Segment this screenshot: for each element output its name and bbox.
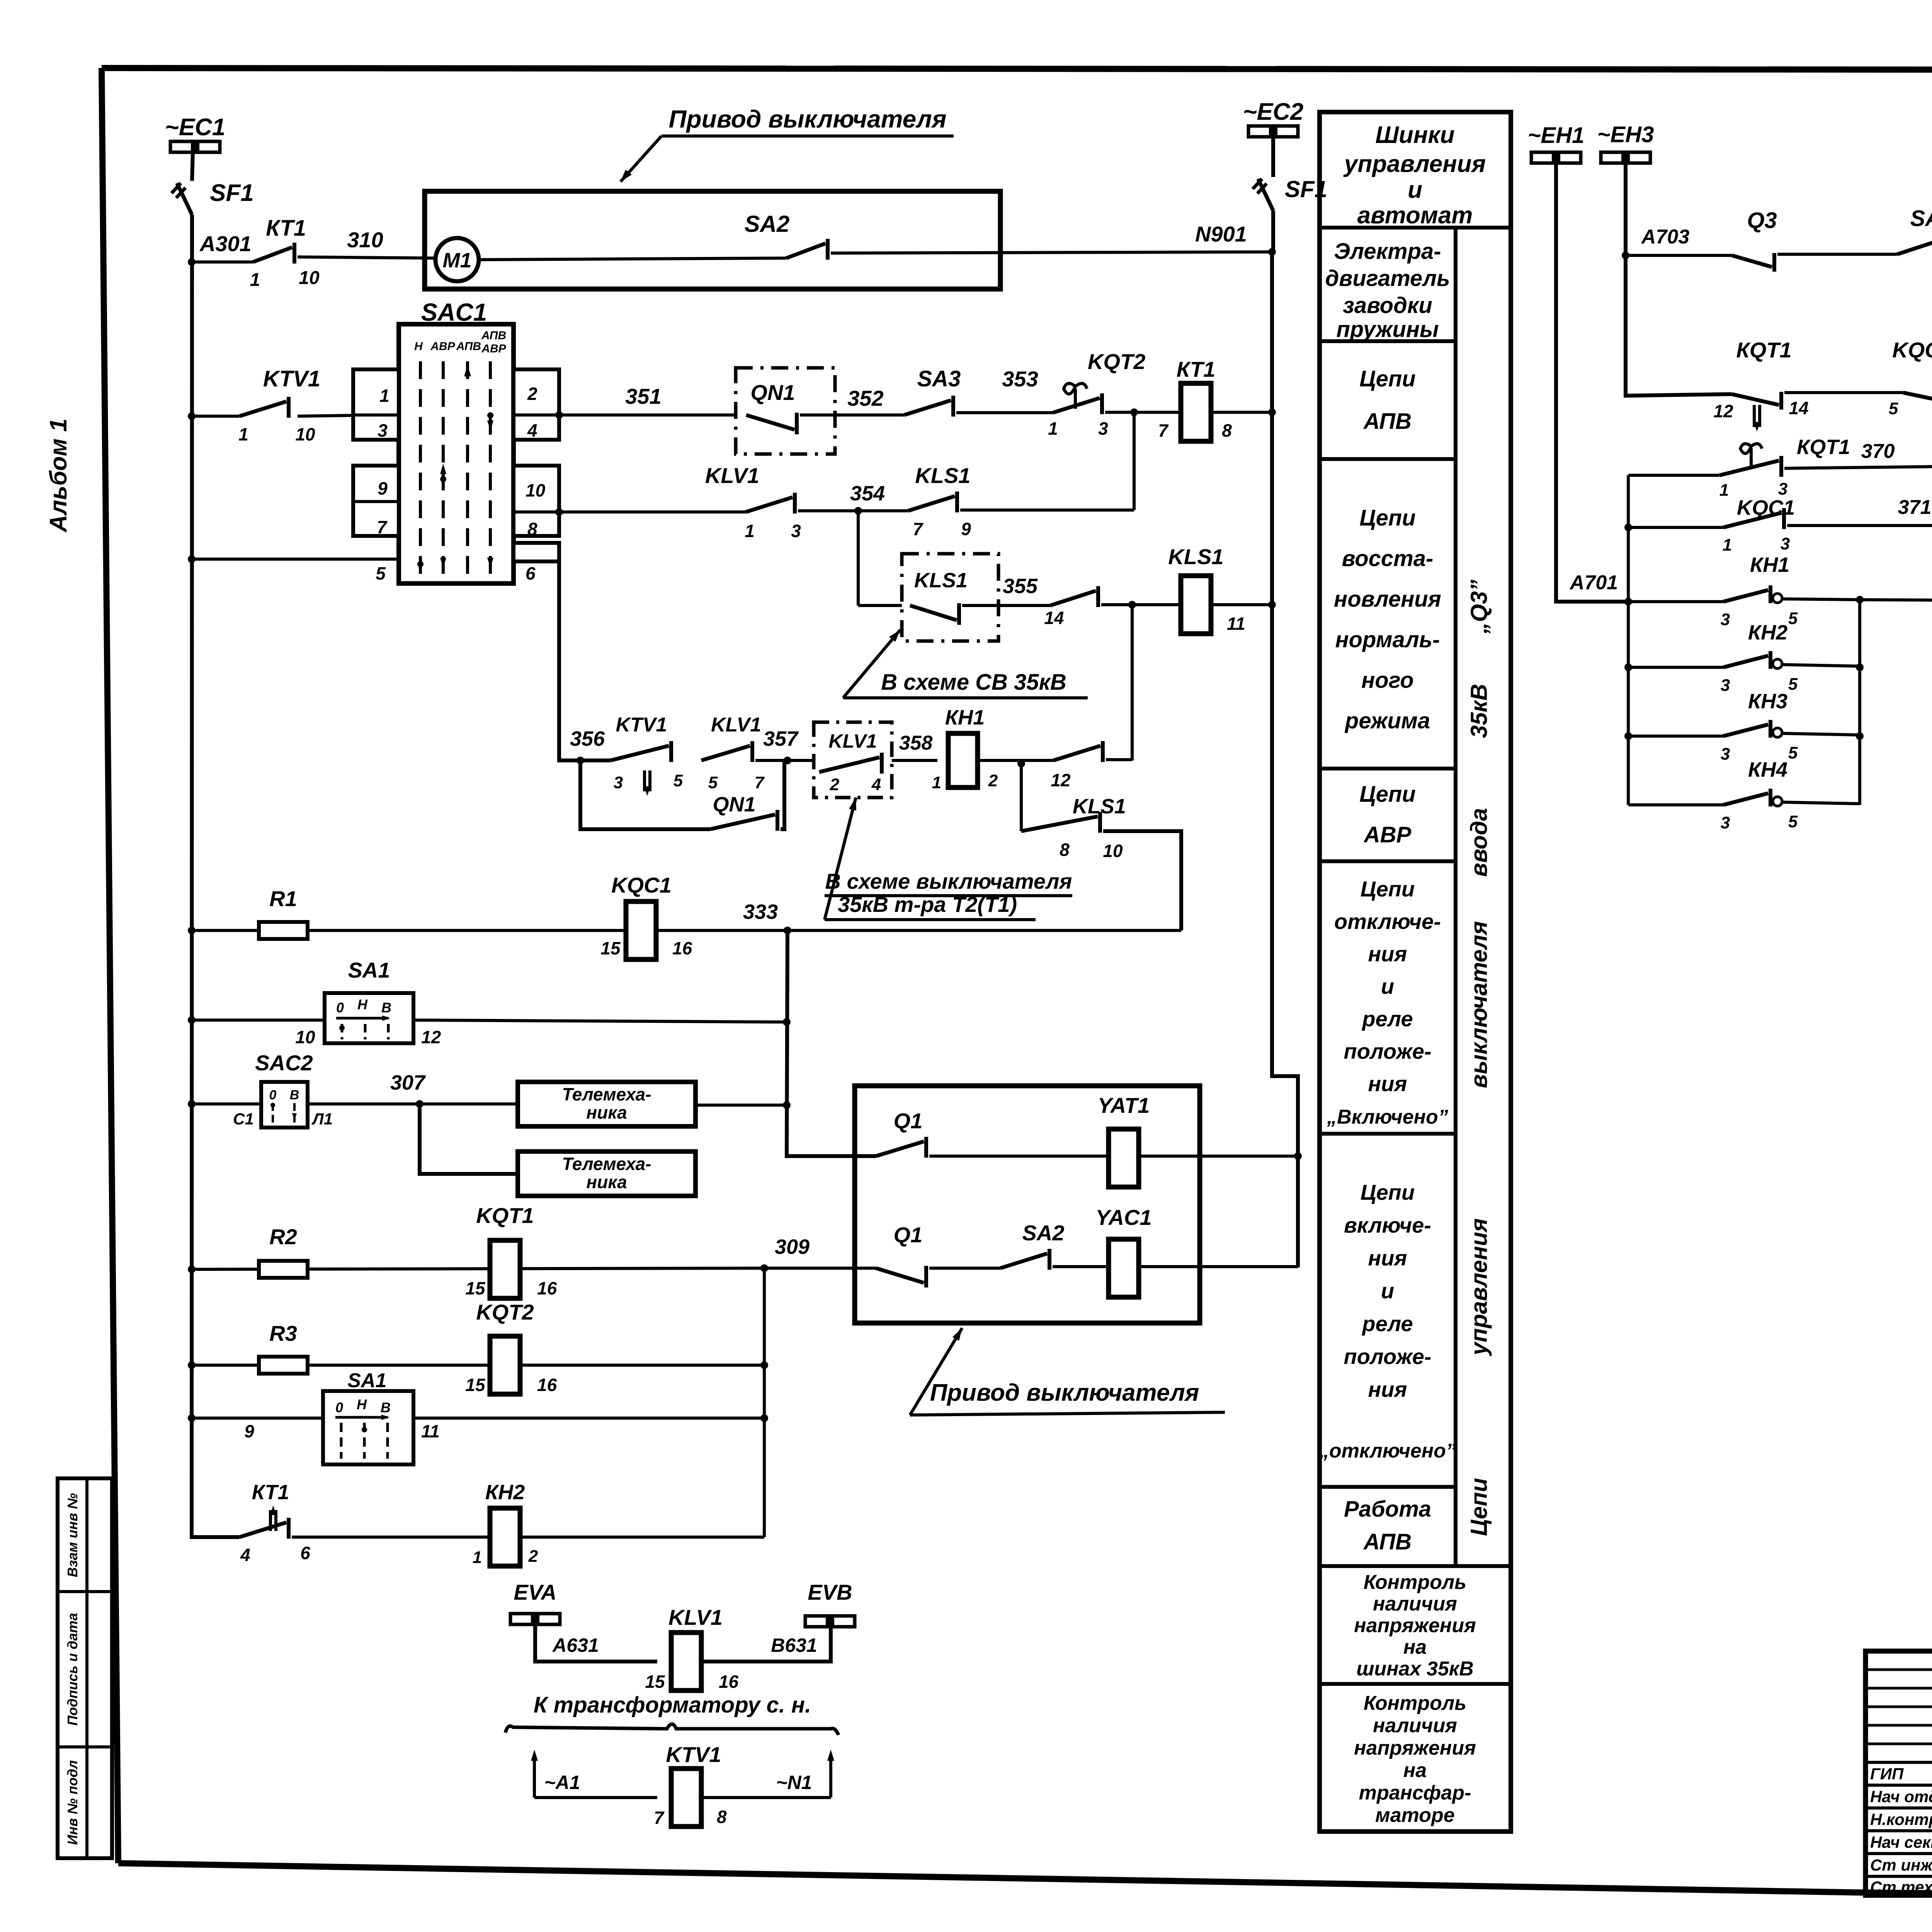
- svg-text:на: на: [1403, 1759, 1427, 1782]
- wire row 354 right: [960, 509, 1134, 512]
- svg-text:АПВ: АПВ: [456, 340, 481, 353]
- wire to KQC1: [1784, 391, 1903, 394]
- wire SAC1 pin6 down: [559, 561, 611, 760]
- svg-text:4: 4: [240, 1545, 250, 1565]
- svg-text:352: 352: [847, 386, 883, 410]
- svg-text:ния: ния: [1368, 1377, 1407, 1401]
- box drive upper: [425, 191, 1000, 289]
- left stamp column: [58, 1478, 112, 1858]
- svg-text:отключе-: отключе-: [1334, 909, 1441, 934]
- svg-text:SAC2: SAC2: [255, 1051, 313, 1075]
- svg-text:реле: реле: [1361, 1311, 1413, 1336]
- wire KT1 to KH2: [292, 1536, 490, 1539]
- svg-text:SA3: SA3: [917, 366, 961, 391]
- wire YAC1 to bus: [1138, 1265, 1298, 1268]
- wire 352: [800, 413, 904, 417]
- SAC1 right tab 6: [514, 543, 559, 561]
- wire row SA1 lower: [188, 1414, 196, 1422]
- svg-text:3: 3: [1781, 534, 1790, 553]
- svg-text:восста-: восста-: [1342, 546, 1434, 571]
- wire A631: [535, 1624, 657, 1662]
- contact KQC1 1-3 row 371: [1624, 524, 1632, 531]
- svg-text:трансфар-: трансфар-: [1359, 1782, 1471, 1804]
- svg-text:15: 15: [465, 1278, 486, 1298]
- svg-text:Н: Н: [357, 997, 368, 1012]
- svg-text:1: 1: [1048, 418, 1058, 439]
- svg-text:8: 8: [1222, 420, 1232, 440]
- svg-text:В: В: [381, 1400, 391, 1415]
- node A703: [1622, 252, 1629, 259]
- svg-text:11: 11: [1227, 614, 1245, 634]
- svg-text:5: 5: [1788, 743, 1798, 762]
- svg-text:Л1: Л1: [311, 1110, 333, 1128]
- wire 309 into box: [764, 1267, 876, 1270]
- wire KH2 riser: [763, 1268, 766, 1537]
- svg-text:КТ1: КТ1: [266, 216, 306, 241]
- svg-text:Ст инж: Ст инж: [1870, 1856, 1932, 1874]
- svg-text:R3: R3: [269, 1321, 297, 1345]
- svg-text:14: 14: [1789, 398, 1808, 418]
- svg-text:12: 12: [1051, 770, 1071, 790]
- svg-text:Цепи: Цепи: [1359, 505, 1415, 531]
- svg-text:5: 5: [376, 563, 386, 583]
- svg-text:Работа: Работа: [1344, 1497, 1431, 1522]
- riser KH right: [1858, 600, 1861, 805]
- svg-text:333: 333: [743, 900, 778, 923]
- wire to KLS1 coil: [1101, 603, 1272, 606]
- svg-text:ного: ного: [1361, 668, 1413, 693]
- svg-text:4: 4: [871, 775, 881, 794]
- wire 333 vertical: [787, 930, 876, 1156]
- SAC1 left tab 9-7: [353, 466, 399, 536]
- svg-text:и: и: [1381, 974, 1394, 998]
- wire junction 353-354: [1133, 412, 1136, 510]
- svg-text:ввода: ввода: [1466, 808, 1492, 877]
- separator KLV1 dashed box: [814, 722, 892, 798]
- svg-text:5: 5: [1788, 812, 1798, 831]
- svg-text:15: 15: [645, 1672, 665, 1692]
- wire 351: [555, 411, 563, 419]
- svg-text:~ЕН1: ~ЕН1: [1528, 123, 1585, 148]
- svg-text:автомат: автомат: [1357, 202, 1473, 229]
- svg-text:Альбом 1: Альбом 1: [45, 418, 72, 533]
- svg-text:КТ1: КТ1: [252, 1481, 289, 1504]
- svg-text:Н.контр: Н.контр: [1870, 1810, 1932, 1828]
- svg-text:Нач отд: Нач отд: [1870, 1787, 1932, 1806]
- svg-text:11: 11: [421, 1421, 440, 1441]
- wire row R3: [188, 1361, 196, 1369]
- wire row 356 right end: [1106, 758, 1132, 761]
- svg-text:SA2: SA2: [745, 211, 790, 237]
- box telemechanika 1: [518, 1082, 696, 1126]
- wire N901: [831, 252, 1272, 253]
- svg-text:1: 1: [1719, 481, 1729, 500]
- svg-text:В: В: [381, 1000, 391, 1015]
- svg-text:Н: Н: [414, 340, 423, 353]
- svg-text:310: 310: [347, 228, 383, 252]
- svg-text:R2: R2: [269, 1225, 297, 1249]
- wire SA2 to YAC1: [1053, 1265, 1109, 1268]
- svg-text:356: 356: [570, 727, 605, 750]
- wire row SAC2: [188, 1100, 196, 1108]
- middle legend table: [1320, 112, 1511, 1832]
- svg-text:„Включено”: „Включено”: [1327, 1106, 1448, 1128]
- svg-text:2: 2: [988, 771, 998, 790]
- svg-text:KLS1: KLS1: [914, 569, 968, 592]
- svg-text:3: 3: [614, 773, 623, 792]
- svg-text:7: 7: [1158, 420, 1169, 440]
- svg-text:~EC1: ~EC1: [165, 114, 226, 141]
- svg-text:А631: А631: [552, 1634, 599, 1656]
- svg-text:Привод выключателя: Привод выключателя: [930, 1379, 1199, 1406]
- svg-text:КН2: КН2: [1748, 621, 1787, 644]
- svg-text:пружины: пружины: [1336, 317, 1439, 342]
- svg-text:KTV1: KTV1: [666, 1742, 721, 1767]
- svg-text:SA3: SA3: [1910, 206, 1932, 231]
- svg-text:и: и: [1408, 177, 1422, 203]
- wire 370: [1784, 465, 1932, 468]
- SAC1 left tab 1-3: [353, 369, 399, 440]
- svg-text:Цепи: Цепи: [1361, 877, 1415, 901]
- svg-text:358: 358: [899, 732, 933, 754]
- wire 370 riser: [1627, 475, 1630, 805]
- svg-text:354: 354: [850, 482, 885, 505]
- svg-text:КТ1: КТ1: [1177, 357, 1215, 381]
- svg-text:В631: В631: [771, 1634, 817, 1656]
- wire bus EC2 down: [1271, 211, 1275, 252]
- svg-text:370: 370: [1861, 440, 1895, 463]
- svg-text:KLV1: KLV1: [828, 730, 877, 752]
- wire down to KLS1 dashed box: [857, 511, 860, 605]
- svg-text:К трансформатору с. н.: К трансформатору с. н.: [534, 1692, 811, 1718]
- svg-text:351: 351: [625, 384, 661, 408]
- svg-text:1: 1: [1723, 536, 1732, 554]
- wire 310: [298, 257, 436, 258]
- svg-text:16: 16: [537, 1375, 557, 1395]
- svg-text:Q1: Q1: [894, 1109, 923, 1133]
- svg-text:2: 2: [527, 384, 537, 404]
- wire row A703: [1626, 254, 1732, 257]
- contact KQT1 1-3 row 370: [1740, 444, 1762, 453]
- border frame: [102, 68, 1932, 70]
- svg-text:АПВ: АПВ: [481, 329, 506, 342]
- svg-text:А301: А301: [199, 231, 252, 256]
- svg-text:наличия: наличия: [1373, 1714, 1457, 1737]
- wire telemech1 to 333 vertical: [696, 1104, 787, 1107]
- svg-text:4: 4: [527, 420, 537, 440]
- svg-text:5: 5: [1788, 609, 1798, 628]
- svg-text:10: 10: [526, 480, 546, 500]
- svg-text:заводки: заводки: [1343, 293, 1432, 318]
- svg-text:выключателя: выключателя: [1466, 921, 1492, 1088]
- contact KLS1 in box: [910, 605, 957, 620]
- svg-text:нормаль-: нормаль-: [1335, 627, 1440, 652]
- svg-text:R1: R1: [269, 886, 297, 911]
- svg-text:5: 5: [1889, 399, 1898, 418]
- svg-text:8: 8: [717, 1807, 727, 1827]
- svg-text:Цепи: Цепи: [1359, 782, 1415, 807]
- wire KLS1 to 333 row: [1103, 831, 1181, 930]
- node A301: [188, 258, 196, 266]
- svg-text:KQT1: KQT1: [476, 1203, 534, 1228]
- svg-text:SA1: SA1: [348, 958, 390, 982]
- svg-text:1: 1: [473, 1548, 482, 1567]
- svg-text:8: 8: [1060, 840, 1070, 860]
- svg-text:КН2: КН2: [485, 1481, 525, 1504]
- contact 355-14: [1050, 591, 1096, 605]
- svg-text:Шинки: Шинки: [1375, 122, 1454, 148]
- svg-text:KQT2: KQT2: [1088, 349, 1145, 374]
- contact 12 row 356: [1053, 746, 1100, 760]
- svg-text:5: 5: [708, 773, 718, 792]
- svg-text:KLS1: KLS1: [915, 463, 970, 488]
- svg-text:и: и: [1381, 1279, 1394, 1303]
- svg-text:Контроль: Контроль: [1364, 1571, 1466, 1594]
- svg-text:2: 2: [528, 1547, 538, 1566]
- wire left bus EC1: [192, 152, 193, 181]
- svg-text:KLV1: KLV1: [705, 463, 759, 488]
- wire B631: [701, 1628, 831, 1662]
- svg-text:шинах 35кВ: шинах 35кВ: [1356, 1658, 1473, 1680]
- svg-text:1: 1: [379, 386, 389, 406]
- svg-text:„Q3”: „Q3”: [1466, 580, 1492, 634]
- contact KTV1 row 356 with arrow: [611, 746, 669, 760]
- svg-text:В схеме выключателя: В схеме выключателя: [825, 869, 1072, 893]
- svg-text:3: 3: [1721, 610, 1730, 629]
- wire A1 arrow: [533, 1754, 536, 1798]
- svg-text:Электра-: Электра-: [1334, 239, 1441, 264]
- svg-text:В схеме СВ 35кВ: В схеме СВ 35кВ: [881, 670, 1066, 695]
- wire to YAT1: [929, 1155, 1109, 1158]
- wire KH1 to HLW1: [1782, 599, 1860, 600]
- separator KLS1 dashed box: [902, 554, 998, 641]
- wire row KTV1 bottom: [534, 1796, 657, 1799]
- svg-text:ника: ника: [586, 1102, 627, 1122]
- svg-text:А703: А703: [1641, 226, 1689, 248]
- title block: [1866, 1651, 1932, 1895]
- svg-text:14: 14: [1044, 608, 1064, 628]
- wire N1 arrow: [701, 1796, 831, 1799]
- svg-text:включе-: включе-: [1344, 1213, 1431, 1237]
- svg-text:1: 1: [932, 773, 941, 792]
- svg-text:YAC1: YAC1: [1095, 1205, 1151, 1230]
- svg-text:EVA: EVA: [514, 1580, 557, 1604]
- svg-text:Телемеха-: Телемеха-: [562, 1154, 651, 1174]
- svg-text:Н: Н: [357, 1396, 367, 1412]
- wire 354: [798, 509, 908, 512]
- svg-text:10: 10: [295, 1027, 315, 1047]
- svg-text:371: 371: [1898, 496, 1932, 519]
- wire KH1 to contact 12: [978, 759, 1053, 762]
- wire right bus down: [1272, 252, 1298, 1267]
- wire M1 to SA2: [479, 258, 786, 260]
- svg-text:6: 6: [526, 563, 536, 583]
- svg-text:Цепи: Цепи: [1359, 366, 1415, 391]
- SAC1 right tab 10-8: [514, 466, 559, 536]
- svg-text:3: 3: [1721, 813, 1730, 832]
- svg-text:KTV1: KTV1: [616, 714, 667, 736]
- contact KQT2 row 353: [1064, 383, 1087, 394]
- svg-text:двигатель: двигатель: [1325, 266, 1450, 291]
- SAC1 right tab 2-4: [514, 369, 559, 440]
- svg-text:1: 1: [250, 270, 260, 290]
- svg-text:7: 7: [913, 519, 923, 539]
- svg-text:~А1: ~А1: [544, 1772, 580, 1793]
- svg-text:3: 3: [1721, 676, 1730, 695]
- svg-text:SA1: SA1: [347, 1369, 386, 1392]
- svg-text:КQТ1: КQТ1: [1797, 435, 1850, 459]
- svg-text:Ст техн: Ст техн: [1870, 1878, 1932, 1896]
- svg-text:А701: А701: [1569, 571, 1618, 594]
- svg-text:ния: ния: [1368, 1246, 1407, 1270]
- svg-text:~ЕН3: ~ЕН3: [1597, 122, 1654, 147]
- node 356: [577, 757, 584, 764]
- svg-text:8: 8: [527, 519, 537, 539]
- motor M1: [435, 238, 479, 281]
- svg-text:QN1: QN1: [750, 380, 795, 405]
- svg-text:~EC2: ~EC2: [1243, 99, 1304, 125]
- wire 307 down to telemech2: [420, 1104, 518, 1174]
- svg-text:SF1: SF1: [210, 180, 254, 206]
- svg-text:Взам инв №: Взам инв №: [65, 1493, 80, 1577]
- wire QN1 bypass: [580, 760, 710, 829]
- wire YAT1 to bus: [1138, 1155, 1298, 1158]
- svg-text:КН1: КН1: [1750, 553, 1789, 577]
- svg-text:3: 3: [791, 521, 801, 541]
- svg-text:9: 9: [961, 519, 971, 539]
- wire 353: [956, 411, 1053, 414]
- svg-text:Цепи: Цепи: [1466, 1478, 1492, 1536]
- wire row KTV1: [188, 412, 196, 420]
- svg-text:0: 0: [335, 1400, 343, 1415]
- svg-text:KQC1: KQC1: [611, 873, 672, 897]
- svg-text:16: 16: [719, 1672, 739, 1692]
- svg-text:С1: С1: [233, 1110, 254, 1128]
- wire EH1 down: [1556, 163, 1628, 602]
- svg-text:KQT2: KQT2: [476, 1300, 534, 1324]
- svg-text:АВР: АВР: [481, 342, 506, 355]
- wire row SA1 upper: [188, 1016, 196, 1024]
- svg-text:Инв № подл: Инв № подл: [65, 1760, 80, 1845]
- svg-text:КН1: КН1: [945, 706, 985, 729]
- svg-text:KLV1: KLV1: [668, 1605, 723, 1629]
- svg-text:KTV1: KTV1: [263, 366, 320, 391]
- svg-text:10: 10: [299, 268, 320, 288]
- svg-text:9: 9: [244, 1421, 254, 1441]
- svg-text:АПВ: АПВ: [1363, 1529, 1412, 1554]
- breaker SF1: [177, 183, 192, 215]
- svg-text:Подпись и дата: Подпись и дата: [65, 1613, 80, 1726]
- wire 355: [962, 604, 1050, 607]
- svg-text:управления: управления: [1466, 1218, 1492, 1356]
- svg-text:10: 10: [295, 424, 315, 444]
- node 309: [760, 1264, 768, 1272]
- svg-text:QN1: QN1: [713, 793, 755, 816]
- wire row 309: [188, 1265, 196, 1273]
- svg-text:АПВ: АПВ: [1363, 409, 1412, 434]
- wire row A301: [192, 260, 253, 264]
- svg-text:3: 3: [1098, 418, 1108, 439]
- svg-text:Привод выключателя: Привод выключателя: [668, 105, 946, 133]
- wire 371: [1787, 524, 1932, 527]
- svg-text:2: 2: [830, 775, 840, 794]
- svg-text:7: 7: [755, 773, 765, 792]
- contact KLV1 row 356: [701, 746, 750, 760]
- svg-text:КQТ1: КQТ1: [1736, 338, 1791, 362]
- svg-text:Нач сект: Нач сект: [1870, 1833, 1932, 1851]
- svg-text:353: 353: [1002, 367, 1038, 391]
- svg-text:5: 5: [1788, 675, 1798, 694]
- svg-text:SA2: SA2: [1022, 1221, 1065, 1245]
- svg-text:реле: реле: [1361, 1007, 1413, 1031]
- wire EH3 down: [1626, 163, 1732, 396]
- svg-text:N901: N901: [1195, 222, 1247, 246]
- svg-text:В: В: [290, 1088, 299, 1102]
- contact KLV1 in box: [819, 757, 879, 772]
- svg-text:Контроль: Контроль: [1364, 1692, 1466, 1714]
- svg-text:7: 7: [377, 517, 388, 537]
- svg-text:Q3: Q3: [1747, 208, 1777, 233]
- box telemechanika 2: [518, 1151, 696, 1196]
- contact QN1 row 351: [746, 415, 794, 430]
- svg-text:положе-: положе-: [1344, 1039, 1431, 1063]
- svg-text:„отключено”: „отключено”: [1319, 1440, 1456, 1462]
- svg-text:ГИП: ГИП: [1870, 1765, 1904, 1783]
- svg-text:3: 3: [378, 420, 388, 440]
- svg-text:КН3: КН3: [1748, 690, 1787, 713]
- wire to KT1 coil: [1105, 411, 1272, 414]
- svg-text:новления: новления: [1334, 587, 1441, 612]
- svg-text:12: 12: [421, 1027, 441, 1047]
- svg-text:Q1: Q1: [894, 1223, 923, 1247]
- svg-text:Цепи: Цепи: [1361, 1180, 1415, 1204]
- svg-text:16: 16: [672, 938, 692, 958]
- svg-text:~N1: ~N1: [776, 1772, 812, 1793]
- svg-text:Телемеха-: Телемеха-: [562, 1084, 651, 1104]
- box drive lower: [855, 1086, 1200, 1323]
- svg-text:наличия: наличия: [1373, 1593, 1457, 1615]
- svg-text:напряжения: напряжения: [1354, 1737, 1476, 1759]
- svg-text:15: 15: [465, 1375, 486, 1395]
- svg-text:6: 6: [300, 1543, 310, 1563]
- svg-text:307: 307: [390, 1071, 426, 1094]
- node 357: [755, 759, 814, 762]
- svg-text:9: 9: [378, 478, 388, 498]
- svg-text:0: 0: [269, 1088, 277, 1102]
- svg-text:ника: ника: [586, 1172, 627, 1192]
- svg-text:309: 309: [775, 1235, 810, 1259]
- svg-text:KQC1: KQC1: [1892, 338, 1932, 362]
- svg-text:12: 12: [1713, 401, 1733, 421]
- svg-text:15: 15: [600, 938, 621, 958]
- svg-text:ния: ния: [1368, 1071, 1407, 1096]
- wire KLV1 row 354: [559, 510, 746, 514]
- svg-text:KLS1: KLS1: [1168, 544, 1223, 569]
- svg-text:3: 3: [1778, 480, 1787, 498]
- svg-text:5: 5: [673, 771, 683, 790]
- wire 358: [892, 759, 937, 762]
- svg-text:АВР: АВР: [1363, 822, 1412, 847]
- svg-text:на: на: [1403, 1636, 1427, 1658]
- svg-text:режима: режима: [1344, 708, 1430, 733]
- svg-text:М1: М1: [442, 249, 471, 272]
- breaker SF1 right: [1271, 137, 1275, 177]
- svg-text:YAT1: YAT1: [1098, 1093, 1150, 1117]
- svg-text:10: 10: [1103, 841, 1123, 861]
- wire row 333: [188, 927, 196, 934]
- svg-text:3: 3: [1721, 745, 1730, 764]
- svg-text:355: 355: [1003, 575, 1038, 598]
